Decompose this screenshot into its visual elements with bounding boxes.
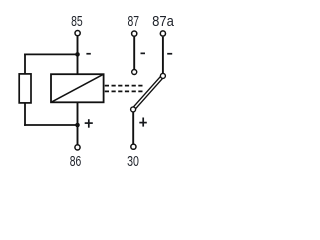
armature pivot contact [131,107,136,112]
wire: terminal 87a down to fixed contact [162,37,164,76]
plus sign at 30 [139,118,147,127]
switch armature (double line from pivot to 87a contact) [132,75,164,110]
resistor (parallel with coil) [19,74,31,103]
fixed contact of 87 [132,70,137,75]
wire: coil bottom down to terminal 86 [77,102,79,147]
relay coil (rectangle with diagonal) [51,74,104,102]
wire: terminal 85 down to coil top [77,36,79,74]
svg-text:86: 86 [70,154,82,170]
minus sign at 85 [86,53,90,55]
dashed actuator linkage (lower line) [105,90,143,92]
svg-text:85: 85 [71,14,83,30]
wire: terminal 87 down to fixed contact [133,37,135,72]
plus sign at 86 [85,119,93,128]
wire: resistor bottom to bottom horizontal [24,103,26,126]
wire: left vertical into resistor top [24,54,26,75]
terminal 86 circle [75,145,80,150]
svg-text:87: 87 [127,14,139,30]
wire: bottom horizontal from left branch to junction [24,124,77,126]
svg-text:30: 30 [127,154,139,170]
terminal 87a circle [160,31,165,36]
svg-text:87a: 87a [152,14,174,30]
terminal 85 circle [75,30,80,35]
terminal 30 circle [131,144,136,149]
terminal 87 circle [132,31,137,36]
dashed actuator linkage (upper line) [105,85,143,87]
junction dot (85 wire / top branch) [75,52,80,57]
minus sign at 87 [141,53,146,55]
minus sign at 87a [167,53,172,55]
wire: top horizontal from junction to left branch [24,53,77,55]
junction dot (86 wire / bottom branch) [75,123,80,128]
fixed contact of 87a [160,73,165,78]
wire: armature pivot down to terminal 30 [132,109,134,146]
